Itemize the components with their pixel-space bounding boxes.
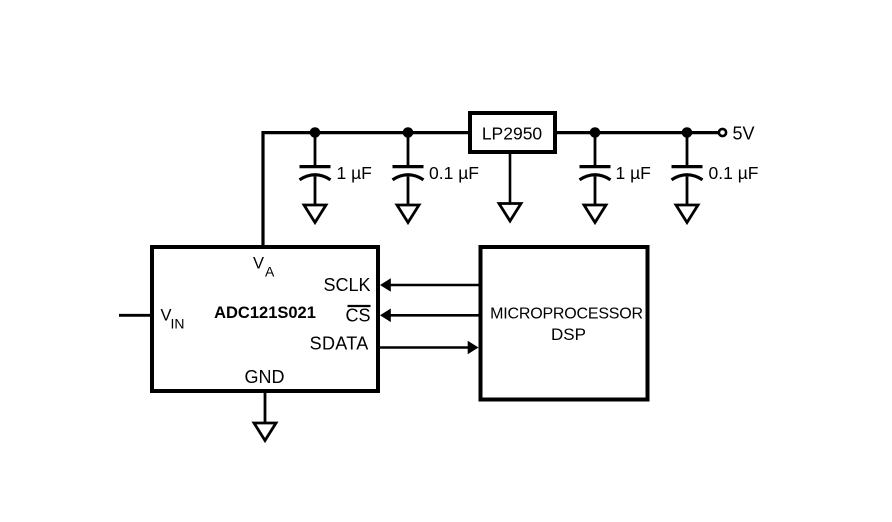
svg-text:ADC121S021: ADC121S021 (214, 304, 316, 322)
svg-text:0.1 µF: 0.1 µF (709, 163, 759, 183)
svg-text:V: V (253, 255, 264, 273)
svg-text:LP2950: LP2950 (482, 124, 543, 144)
svg-text:1 µF: 1 µF (616, 163, 651, 183)
svg-text:DSP: DSP (551, 325, 586, 344)
svg-text:GND: GND (245, 367, 285, 387)
svg-text:1 µF: 1 µF (337, 163, 372, 183)
svg-text:0.1 µF: 0.1 µF (429, 163, 479, 183)
svg-text:A: A (265, 264, 275, 280)
svg-text:5V: 5V (733, 124, 755, 144)
svg-text:MICROPROCESSOR: MICROPROCESSOR (490, 305, 643, 322)
svg-text:SDATA: SDATA (310, 334, 369, 354)
svg-text:IN: IN (171, 316, 185, 332)
svg-text:CS: CS (345, 306, 370, 326)
svg-text:SCLK: SCLK (323, 275, 370, 295)
